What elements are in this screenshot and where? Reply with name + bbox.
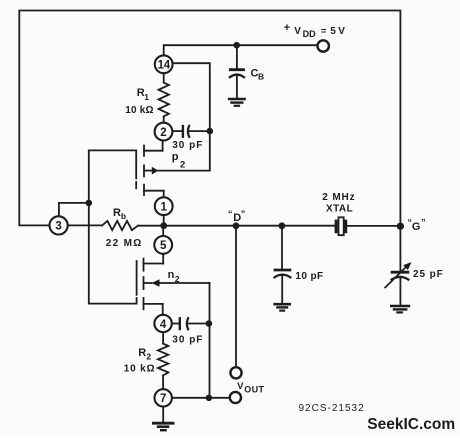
svg-text:14: 14	[158, 60, 171, 72]
svg-text:SeekIC.com: SeekIC.com	[367, 416, 455, 433]
svg-text:p: p	[172, 151, 179, 163]
svg-text:B: B	[258, 71, 264, 81]
svg-text:“: “	[228, 209, 233, 219]
svg-text:10 kΩ: 10 kΩ	[124, 364, 155, 375]
svg-text:25 pF: 25 pF	[413, 269, 444, 280]
svg-text:2: 2	[175, 274, 180, 284]
svg-text:R: R	[138, 347, 146, 359]
svg-text:=: =	[321, 26, 327, 37]
svg-text:b: b	[121, 211, 126, 221]
svg-text:2: 2	[160, 127, 166, 139]
svg-text:2: 2	[180, 159, 185, 170]
svg-text:OUT: OUT	[244, 385, 264, 395]
svg-text:”: ”	[421, 217, 426, 227]
svg-text:n: n	[168, 269, 175, 281]
svg-text:30 pF: 30 pF	[172, 335, 203, 346]
svg-text:30 pF: 30 pF	[172, 140, 203, 151]
svg-text:10 pF: 10 pF	[295, 271, 323, 282]
svg-text:G: G	[412, 221, 421, 233]
svg-text:V: V	[294, 26, 301, 37]
svg-text:2: 2	[146, 352, 151, 362]
svg-text:5: 5	[160, 240, 167, 252]
svg-text:DD: DD	[303, 29, 316, 39]
svg-text:5: 5	[330, 26, 336, 37]
svg-text:V: V	[237, 381, 244, 392]
svg-text:4: 4	[160, 319, 167, 331]
svg-text:V: V	[338, 26, 345, 37]
svg-text:22 MΩ: 22 MΩ	[106, 238, 143, 249]
svg-text:3: 3	[55, 221, 61, 233]
svg-text:10 kΩ: 10 kΩ	[125, 105, 153, 116]
svg-text:R: R	[113, 207, 121, 219]
svg-text:XTAL: XTAL	[326, 204, 353, 215]
svg-text:1: 1	[144, 92, 149, 102]
svg-text:+: +	[284, 22, 290, 34]
svg-text:2 MHz: 2 MHz	[322, 192, 355, 203]
svg-text:92CS-21532: 92CS-21532	[299, 403, 365, 414]
svg-text:1: 1	[160, 202, 167, 214]
svg-text:7: 7	[160, 393, 166, 405]
svg-text:”: ”	[241, 209, 246, 219]
